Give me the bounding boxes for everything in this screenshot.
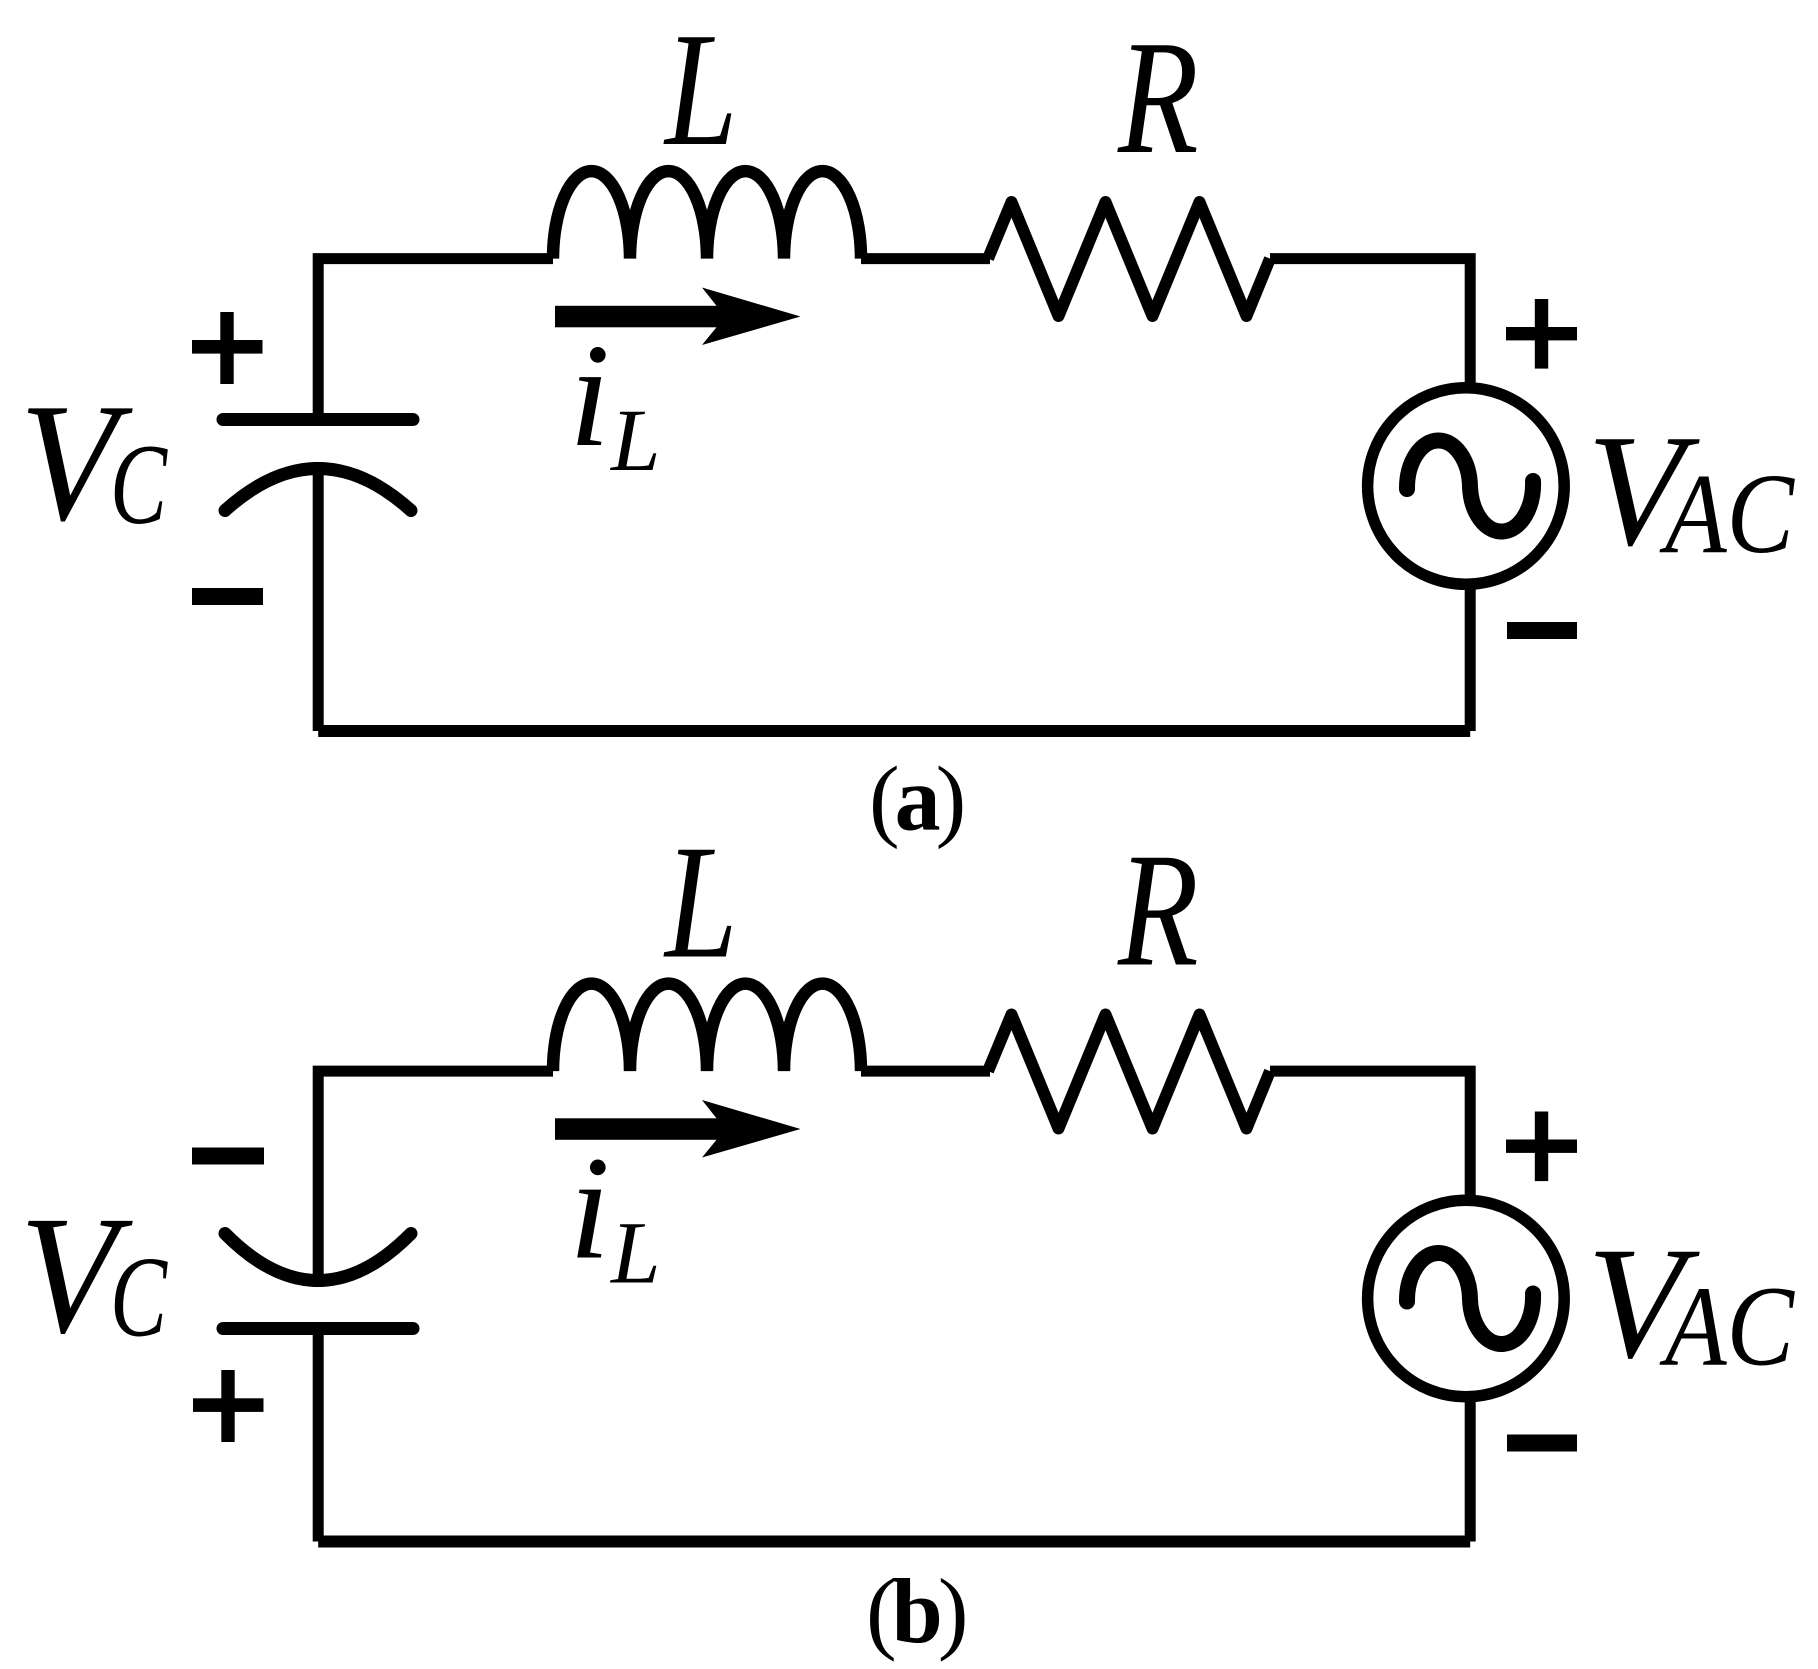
wire: bottom rail (a) [318, 725, 1470, 737]
capacitor + polarity mark (a) [192, 312, 263, 384]
wire: inductor to resistor (a) [861, 253, 990, 264]
AC source sine symbol (b) [1407, 1253, 1533, 1344]
svg-text:R: R [1117, 821, 1198, 1001]
capacitor - polarity mark (b) [192, 1148, 264, 1165]
svg-text:AC: AC [1659, 1263, 1796, 1390]
wire: capacitor curved plate down to bottom-left corner (a) [313, 462, 324, 731]
wire: AC source bottom to bottom-right corner (a) [1465, 584, 1476, 731]
svg-text:C: C [110, 1234, 168, 1361]
wire: resistor to top-right corner down to AC source (a) [1270, 259, 1470, 388]
svg-text:i: i [569, 314, 610, 478]
resistor R (b) [988, 1015, 1270, 1129]
wire: resistor to top-right corner down to AC source (b) [1270, 1071, 1470, 1200]
svg-text:L: L [663, 0, 737, 180]
current arrow i_L (b) [555, 1100, 801, 1158]
svg-text:L: L [609, 392, 661, 490]
capacitor straight plate (a) [223, 413, 413, 426]
wire: capacitor top plate up to top-left corner and across to inductor (a) [318, 259, 553, 415]
svg-text:L: L [663, 813, 737, 993]
capacitor straight plate (b) [223, 1322, 413, 1335]
wire: AC source bottom to bottom-right corner (b) [1465, 1397, 1476, 1542]
resistor R (a) [988, 202, 1270, 316]
svg-text:C: C [110, 421, 168, 548]
svg-text:R: R [1117, 8, 1198, 188]
label - at AC source (b) [1507, 1435, 1577, 1452]
svg-text:AC: AC [1659, 450, 1796, 577]
current arrow i_L (a) [555, 288, 801, 346]
label + at AC source (a) [1506, 299, 1577, 369]
AC source sine symbol (a) [1407, 440, 1533, 531]
AC source circle (b) [1368, 1200, 1565, 1397]
wire: bottom rail (b) [318, 1536, 1470, 1548]
capacitor + polarity mark (b) [193, 1370, 264, 1442]
inductor L (a) [553, 171, 861, 259]
svg-text:i: i [569, 1127, 610, 1291]
label + at AC source (b) [1506, 1112, 1577, 1182]
svg-text:(b): (b) [866, 1560, 965, 1662]
wire: top-left corner across to inductor (b) [318, 1071, 553, 1287]
capacitor - polarity mark (a) [192, 588, 263, 605]
svg-text:(a): (a) [869, 748, 963, 850]
capacitor curved plate (a) [225, 469, 411, 511]
AC source circle (a) [1368, 388, 1565, 585]
svg-text:L: L [609, 1205, 661, 1303]
label - at AC source (a) [1507, 622, 1577, 639]
wire: inductor to resistor (b) [861, 1066, 990, 1077]
wire: capacitor straight plate down to bottom-left corner (b) [313, 1332, 324, 1542]
inductor L (b) [553, 984, 861, 1072]
capacitor curved plate (b) [225, 1234, 411, 1281]
